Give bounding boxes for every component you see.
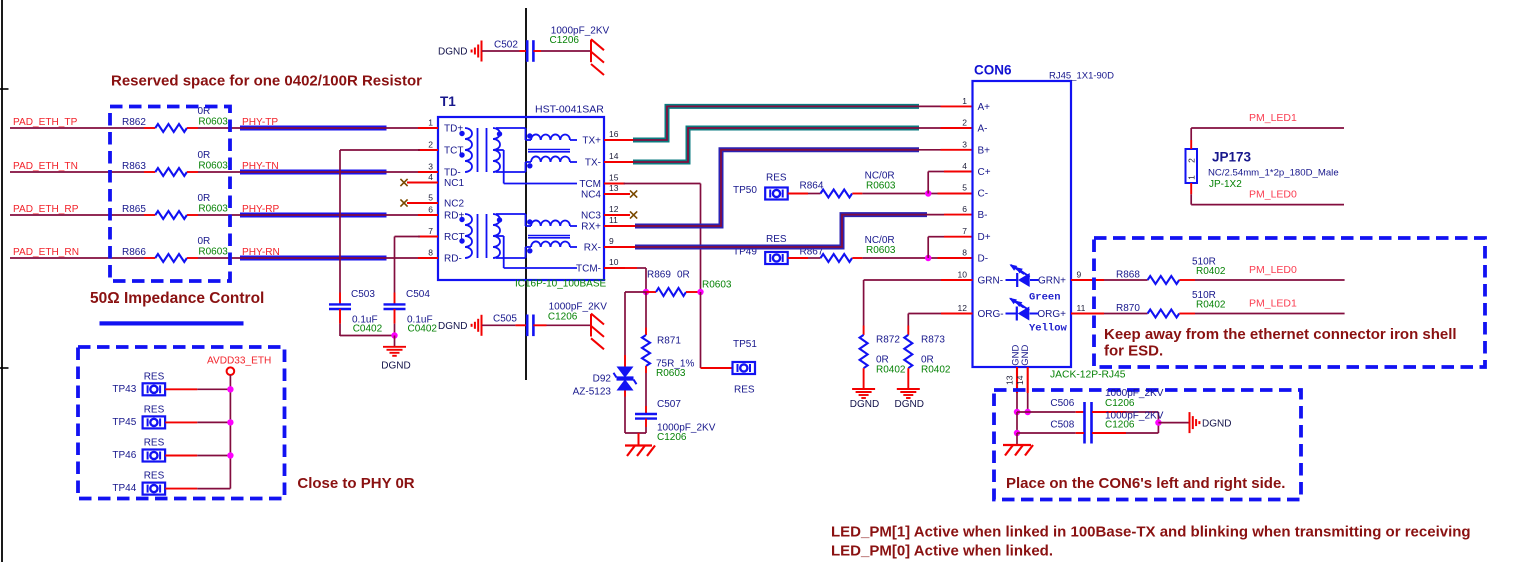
svg-text:RES: RES <box>734 385 755 396</box>
test point TP44 <box>112 471 165 495</box>
svg-text:C507: C507 <box>657 399 681 410</box>
green LED inside CON6 <box>1006 264 1039 287</box>
power symbol DGND (C502 left) <box>438 41 481 62</box>
svg-text:3: 3 <box>428 162 433 172</box>
wire CON6 pin11 to R870 <box>1104 313 1148 315</box>
svg-text:9: 9 <box>609 236 614 246</box>
svg-text:TX+: TX+ <box>582 136 601 147</box>
svg-text:CON6: CON6 <box>974 63 1012 78</box>
svg-text:C+: C+ <box>978 167 991 178</box>
svg-text:R0603: R0603 <box>702 280 732 291</box>
dashed box: shield caps <box>994 390 1301 500</box>
svg-text:6: 6 <box>428 205 433 215</box>
resistor R862 0R R0603 <box>122 106 228 132</box>
svg-text:C1206: C1206 <box>1105 398 1135 409</box>
svg-text:C1206: C1206 <box>548 311 578 322</box>
svg-text:R0603: R0603 <box>656 368 686 379</box>
yellow LED inside CON6 <box>1006 298 1039 321</box>
svg-text:NC/2.54mm_1*2p_180D_Male: NC/2.54mm_1*2p_180D_Male <box>1208 168 1339 179</box>
wire D92 to bottom <box>624 391 626 434</box>
svg-text:Reserved space for one 0402/10: Reserved space for one 0402/100R Resisto… <box>111 72 422 89</box>
T1 pin 14 TX- <box>585 151 625 169</box>
resistor R872 0R R0402 <box>860 335 906 376</box>
svg-text:9: 9 <box>1077 270 1082 280</box>
CON6 pin 12 ORG- <box>958 303 1004 320</box>
wire B+ (pin11 to CON6 pin3) <box>604 150 973 226</box>
wire to pin4 C+ <box>928 172 972 194</box>
svg-text:1: 1 <box>428 118 433 128</box>
wire C507 to chassis <box>645 419 647 433</box>
svg-text:C-: C- <box>978 189 989 200</box>
svg-text:3: 3 <box>962 139 967 149</box>
R869 labels <box>647 270 732 291</box>
wire C502 to chassis <box>533 50 591 52</box>
resistor R868 510R <box>1116 257 1226 285</box>
wire DGND to C505 <box>482 324 527 326</box>
power symbol DGND (shield caps) <box>1190 412 1232 433</box>
svg-text:C0402: C0402 <box>408 324 438 335</box>
ground DGND (R873) <box>894 368 923 410</box>
tvs diode D92 AZ-5123 <box>573 367 637 398</box>
T1 RX choke core <box>528 236 570 238</box>
wire CON6 pin10 GRN- to R872 <box>864 280 973 335</box>
svg-text:Close to PHY 0R: Close to PHY 0R <box>297 475 414 492</box>
svg-text:R871: R871 <box>657 336 681 347</box>
svg-text:2: 2 <box>428 140 433 150</box>
note: Keep away from the ethernet connector iron shell <box>1104 326 1457 360</box>
wire C504 to ground <box>394 309 396 336</box>
svg-text:R872: R872 <box>876 335 900 346</box>
svg-text:R0603: R0603 <box>198 246 228 257</box>
resistor R869 0R <box>646 288 701 296</box>
wire junction to DGND <box>1158 422 1189 424</box>
svg-text:RD-: RD- <box>444 254 462 265</box>
chassis ground (D92/C507) <box>625 433 655 456</box>
net label PM_LED0 (JP173) <box>1249 189 1297 201</box>
wire R869 to R871 <box>645 292 647 335</box>
JP173 pin 1 <box>1187 175 1197 180</box>
junction R867/D- <box>925 255 931 261</box>
svg-text:4: 4 <box>962 161 967 171</box>
wire T1 pin2 TCT to C503 <box>340 150 438 304</box>
test point TP51 <box>733 339 758 396</box>
test point TP50 <box>733 173 788 200</box>
net label AVDD33_ETH <box>207 356 271 367</box>
svg-text:14: 14 <box>1015 375 1025 385</box>
test point TP49 <box>733 234 788 264</box>
svg-text:C1206: C1206 <box>1105 420 1135 431</box>
CON6 pin 5 C- <box>962 183 988 200</box>
net label PAD_ETH_RN <box>13 247 79 258</box>
T1 RX+ choke winding <box>496 214 577 226</box>
svg-text:PM_LED1: PM_LED1 <box>1249 112 1297 124</box>
label Yellow <box>1029 323 1068 335</box>
note: Close to PHY 0R <box>297 475 414 492</box>
wire R862 to PHY-TP <box>187 127 241 129</box>
wire T1 pin7 RCT to C504 <box>395 237 439 305</box>
svg-text:7: 7 <box>428 226 433 236</box>
svg-text:T1: T1 <box>440 94 456 109</box>
T1 pin 8 RD- <box>418 248 462 265</box>
JP173 pin 2 <box>1187 158 1197 163</box>
svg-text:TP50: TP50 <box>733 185 757 196</box>
svg-text:NC4: NC4 <box>581 190 601 201</box>
note: LED_PM[1] description <box>831 524 1471 541</box>
svg-text:12: 12 <box>958 303 968 313</box>
svg-text:12: 12 <box>609 204 619 214</box>
svg-text:14: 14 <box>609 151 619 161</box>
svg-text:JACK-12P-RJ45: JACK-12P-RJ45 <box>1050 369 1126 380</box>
junction R864/C- <box>925 190 931 196</box>
svg-text:DGND: DGND <box>850 399 879 410</box>
wire R866 to PHY-RN <box>187 257 241 259</box>
net label PM_LED0 (R868) <box>1249 264 1297 276</box>
svg-text:NC3: NC3 <box>581 211 601 222</box>
wire C508 row <box>1017 432 1084 434</box>
CON6 pin 3 B+ <box>962 139 990 156</box>
label Green <box>1029 292 1061 304</box>
junction TP45 <box>227 419 233 425</box>
svg-text:A+: A+ <box>978 102 991 113</box>
svg-text:NC1: NC1 <box>444 178 464 189</box>
svg-text:C504: C504 <box>406 289 430 300</box>
junction TP43 <box>227 386 233 392</box>
svg-text:C1206: C1206 <box>657 432 687 443</box>
svg-text:50Ω Impedance Control: 50Ω Impedance Control <box>90 290 264 307</box>
svg-text:RES: RES <box>144 438 165 449</box>
svg-text:PAD_ETH_RN: PAD_ETH_RN <box>13 247 79 258</box>
svg-text:A-: A- <box>978 124 988 135</box>
svg-text:10: 10 <box>958 270 968 280</box>
svg-text:for ESD.: for ESD. <box>1104 343 1163 360</box>
net label PHY-TN <box>242 161 279 172</box>
T1 TX primary winding <box>459 128 472 172</box>
note: Place on the CON6's left and right side. <box>1006 475 1285 492</box>
svg-text:R868: R868 <box>1116 270 1140 281</box>
junction C508 left <box>1014 430 1020 436</box>
T1 RX primary winding <box>459 214 472 258</box>
wire to D92 <box>625 292 646 367</box>
CON6 pin 9 GRN+ <box>1038 270 1104 287</box>
wire C506 row <box>1017 411 1084 413</box>
svg-text:DGND: DGND <box>1202 419 1231 430</box>
wire JP173 pin2 to PM_LED1 <box>1191 128 1344 149</box>
svg-text:C503: C503 <box>351 289 375 300</box>
svg-text:R866: R866 <box>122 247 146 258</box>
resistor R865 0R R0603 <box>122 193 228 219</box>
CON6 pin 7 D+ <box>962 226 990 243</box>
CON6 refdes <box>974 63 1012 78</box>
net label PM_LED1 (R870) <box>1249 298 1297 310</box>
page fold line <box>525 8 527 380</box>
svg-text:10: 10 <box>609 257 619 267</box>
svg-text:13: 13 <box>1005 375 1015 385</box>
dashed box: keep away ESD <box>1094 238 1485 367</box>
svg-text:GND: GND <box>1020 345 1031 366</box>
svg-text:IC16P-10_100BASE: IC16P-10_100BASE <box>515 279 607 290</box>
power symbol DGND (C505 left) <box>438 315 481 336</box>
svg-text:TD-: TD- <box>444 168 461 179</box>
svg-text:ORG-: ORG- <box>978 309 1004 320</box>
test point TP46 <box>112 438 165 462</box>
svg-text:1: 1 <box>1187 175 1197 180</box>
svg-text:LED_PM[0] Active when linked.: LED_PM[0] Active when linked. <box>831 543 1053 560</box>
svg-text:0R: 0R <box>198 193 211 204</box>
wire JP173 pin1 to PM_LED0 <box>1191 183 1344 205</box>
T1 pin 11 RX+ <box>581 215 625 233</box>
svg-text:JP-1X2: JP-1X2 <box>1209 179 1242 190</box>
svg-text:0R: 0R <box>677 270 690 281</box>
wire R870 to PM_LED1 <box>1179 313 1344 315</box>
svg-text:Green: Green <box>1029 292 1061 304</box>
svg-text:2: 2 <box>1187 158 1197 163</box>
wire PAD_ETH_TN <box>10 171 155 173</box>
svg-text:PM_LED0: PM_LED0 <box>1249 264 1297 276</box>
connector CON6 box <box>973 81 1072 367</box>
svg-text:D+: D+ <box>978 232 991 243</box>
svg-text:R873: R873 <box>921 335 945 346</box>
capacitor C502 <box>494 26 610 62</box>
wire T1 pin10 TCM- to R869 <box>625 268 646 292</box>
resistor R873 0R R0402 <box>904 335 951 376</box>
svg-text:4: 4 <box>428 172 433 182</box>
svg-text:HST-0041SAR: HST-0041SAR <box>535 104 604 116</box>
svg-text:RX+: RX+ <box>581 222 601 233</box>
wire C503 to ground net <box>340 309 395 336</box>
svg-text:R0402: R0402 <box>921 365 951 376</box>
T1 pin 7 RCT <box>418 226 465 243</box>
svg-text:R0603: R0603 <box>866 180 896 191</box>
power node AVDD33_ETH circle <box>227 367 235 375</box>
svg-text:C1206: C1206 <box>550 35 580 46</box>
test point TP45 <box>112 405 165 429</box>
svg-text:AZ-5123: AZ-5123 <box>573 387 612 398</box>
wire C508 to junction <box>1092 432 1158 434</box>
svg-text:TP43: TP43 <box>112 384 136 395</box>
chassis ground (C505 right) <box>591 314 604 350</box>
svg-text:TP44: TP44 <box>112 483 136 494</box>
net label PHY-RN <box>242 247 280 258</box>
wire R868 to PM_LED0 <box>1179 279 1344 281</box>
svg-text:TCM-: TCM- <box>576 264 601 275</box>
T1 pin 6 RD+ <box>418 205 464 222</box>
T1 TX+ choke winding <box>496 128 577 140</box>
resistor R864 NC/0R <box>800 171 896 198</box>
svg-text:1: 1 <box>962 96 967 106</box>
ground DGND (R872) <box>850 368 879 410</box>
T1 pin 10 TCM- <box>576 257 625 275</box>
CON6 pin 11 ORG+ <box>1037 303 1104 320</box>
T1 value HST-0041SAR <box>535 104 604 116</box>
wire CON6 pin9 to R868 <box>1104 279 1148 281</box>
T1 footprint IC16P-10_100BASE <box>515 279 607 290</box>
svg-text:DGND: DGND <box>894 399 923 410</box>
wire TP44 <box>165 488 230 490</box>
T1 pin 16 TX+ <box>582 129 625 147</box>
T1 RX- choke winding <box>496 241 577 258</box>
net label PM_LED1 (JP173) <box>1249 112 1297 124</box>
svg-text:RES: RES <box>766 234 787 245</box>
wire TP49 to R867 <box>788 257 821 259</box>
T1 pin 15 TCM <box>579 173 625 191</box>
junction TP46 <box>227 452 233 458</box>
dashed box: reserved 0402 resistors <box>110 107 230 282</box>
svg-text:RES: RES <box>144 371 165 382</box>
wire R864 to CON6 pins 4,5 <box>852 193 972 195</box>
svg-text:B+: B+ <box>978 145 991 156</box>
wire PHY-RP (impedance controlled) <box>240 213 438 218</box>
capacitor C508 1000pF_2KV <box>1050 410 1163 430</box>
svg-text:6: 6 <box>962 204 967 214</box>
svg-text:C505: C505 <box>493 313 517 324</box>
T1 pin 3 TD- <box>418 162 461 179</box>
svg-text:R865: R865 <box>122 204 146 215</box>
wire R869 to TP51 <box>701 292 733 368</box>
T1 pin 9 RX- <box>584 236 625 254</box>
svg-text:DGND: DGND <box>381 361 410 372</box>
CON6 value RJ45_1X1-90D <box>1049 71 1114 82</box>
resistor R867 NC/0R <box>800 235 896 262</box>
svg-text:R869: R869 <box>647 270 671 281</box>
wire B- (pin9 to CON6 pin6) <box>604 215 973 247</box>
CON6 pin 14 <box>1015 367 1028 393</box>
svg-text:TP45: TP45 <box>112 417 136 428</box>
wire CON6 pin14 down <box>1027 393 1029 412</box>
net label PHY-RP <box>242 204 279 215</box>
svg-text:DGND: DGND <box>438 321 467 332</box>
sheet border line <box>0 0 9 562</box>
svg-text:11: 11 <box>609 215 618 225</box>
T1 TX- choke winding <box>496 156 577 172</box>
CON6 pin 10 GRN- <box>958 270 1004 287</box>
junction C503/C504 ground <box>391 332 397 338</box>
wire A+ (pin16 to CON6 pin1) <box>604 106 973 140</box>
wire C505 to chassis <box>533 324 591 326</box>
resistor R866 0R R0603 <box>122 236 228 262</box>
svg-text:DGND: DGND <box>438 47 467 58</box>
capacitor C505 <box>493 301 607 336</box>
wire TP46 <box>165 455 230 457</box>
junction R869 right <box>697 289 703 295</box>
wire to pin7 D+ <box>928 237 972 258</box>
svg-text:PAD_ETH_TN: PAD_ETH_TN <box>13 161 78 172</box>
wire R871 to C507 <box>645 366 647 414</box>
svg-text:15: 15 <box>609 173 619 183</box>
net label PAD_ETH_TP <box>13 117 78 128</box>
wire T1 pin15 TCM to R869 <box>624 184 701 293</box>
T1 RX core <box>478 214 487 258</box>
underline bar <box>100 321 244 325</box>
wire bottom joining <box>625 432 646 434</box>
T1 TX secondary winding <box>493 128 502 172</box>
svg-text:C502: C502 <box>494 39 518 50</box>
CON6 pin 8 D- <box>962 247 988 264</box>
CON6 pin 1 A+ <box>962 96 990 113</box>
wire CON6 pin13 down <box>1016 393 1018 412</box>
wire PHY-TP (impedance controlled) <box>240 126 438 131</box>
capacitor C504 0.1uF <box>384 289 438 335</box>
net label PAD_ETH_RP <box>13 204 79 215</box>
svg-text:TP51: TP51 <box>733 339 757 350</box>
wire C506 to junction <box>1092 412 1158 433</box>
wire R867 to CON6 pins 7,8 <box>852 257 972 259</box>
T1 pin 5 NC2 (no connect) <box>400 193 464 210</box>
wire PHY-TN (impedance controlled) <box>240 170 438 175</box>
capacitor C507 1000pF_2KV <box>635 399 716 443</box>
T1 refdes <box>440 94 456 109</box>
transformer T1 box <box>438 117 604 280</box>
T1 pin 2 TCT <box>418 140 463 157</box>
note: LED_PM[0] description <box>831 543 1053 560</box>
svg-text:RES: RES <box>144 471 165 482</box>
wire PHY-RN (impedance controlled) <box>240 256 438 261</box>
CON6 footprint JACK-12P-RJ45 <box>1050 369 1126 380</box>
svg-text:RX-: RX- <box>584 243 601 254</box>
wire R863 to PHY-TN <box>187 171 241 173</box>
wire pin13 col to C508 <box>1016 412 1018 433</box>
svg-text:GRN+: GRN+ <box>1038 276 1066 287</box>
JP173 labels <box>1208 150 1339 191</box>
wire R865 to PHY-RP <box>187 214 241 216</box>
T1 pin 13 NC4 (no connect) <box>581 183 637 201</box>
svg-text:LED_PM[1] Active when linked i: LED_PM[1] Active when linked in 100Base-… <box>831 524 1471 541</box>
svg-text:2: 2 <box>962 118 967 128</box>
T1 TCM center tap <box>496 150 577 184</box>
svg-text:8: 8 <box>962 247 967 257</box>
svg-text:RJ45_1X1-90D: RJ45_1X1-90D <box>1049 71 1114 82</box>
resistor R870 510R <box>1116 290 1226 318</box>
net label PHY-TP <box>242 117 278 128</box>
CON6 pin 13 <box>1005 367 1018 393</box>
svg-text:TCM: TCM <box>579 179 601 190</box>
CON6 pin 4 C+ <box>962 161 990 178</box>
svg-text:GRN-: GRN- <box>978 276 1004 287</box>
svg-text:0R: 0R <box>198 236 211 247</box>
T1 TX choke core <box>528 150 570 152</box>
svg-text:Yellow: Yellow <box>1029 323 1068 335</box>
svg-text:PAD_ETH_TP: PAD_ETH_TP <box>13 117 78 128</box>
svg-text:B-: B- <box>978 210 988 221</box>
svg-text:7: 7 <box>962 226 967 236</box>
svg-text:R0603: R0603 <box>198 116 228 127</box>
svg-text:C508: C508 <box>1050 420 1074 431</box>
svg-text:R0402: R0402 <box>1196 300 1226 311</box>
svg-text:RES: RES <box>144 405 165 416</box>
wire A- (pin14 to CON6 pin2) <box>604 128 973 162</box>
svg-text:R0603: R0603 <box>198 203 228 214</box>
svg-text:Keep away from the ethernet co: Keep away from the ethernet connector ir… <box>1104 326 1457 343</box>
junction shield caps right <box>1155 419 1161 425</box>
svg-text:TP46: TP46 <box>112 450 136 461</box>
svg-text:PM_LED0: PM_LED0 <box>1249 189 1297 201</box>
test point TP43 <box>112 371 165 395</box>
svg-text:C0402: C0402 <box>353 324 383 335</box>
note: Reserved space for one 0402/100R Resistor <box>111 72 422 89</box>
junction pin13 col top <box>1014 409 1020 415</box>
svg-text:D-: D- <box>978 253 989 264</box>
chassis ground (C502 right) <box>591 39 604 75</box>
CON6 GND pin names <box>1010 345 1031 366</box>
CON6 pin 2 A- <box>962 118 987 135</box>
wire DGND to C502 <box>482 50 527 52</box>
svg-text:13: 13 <box>609 183 619 193</box>
svg-text:R0402: R0402 <box>1196 266 1226 277</box>
ground DGND (C503/C504) <box>381 336 410 372</box>
svg-text:Place on the CON6's left and r: Place on the CON6's left and right side. <box>1006 475 1285 492</box>
wire TP43 <box>165 388 230 390</box>
svg-text:11: 11 <box>1077 303 1086 313</box>
T1 pin 12 NC3 (no connect) <box>581 204 637 222</box>
